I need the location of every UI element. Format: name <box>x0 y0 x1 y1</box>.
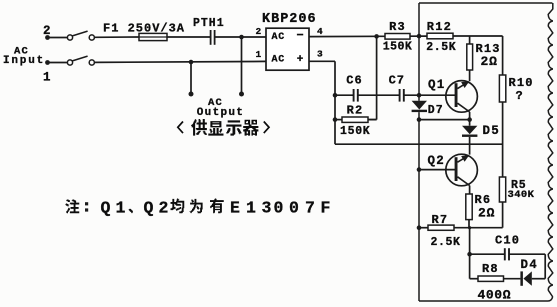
svg-text:3: 3 <box>262 199 272 218</box>
node C10 tap junction <box>467 252 472 257</box>
svg-text:+: + <box>297 54 304 66</box>
svg-text:2: 2 <box>255 26 261 37</box>
svg-text:7: 7 <box>305 199 315 218</box>
transistor Q1 <box>428 78 477 112</box>
wire R5 to bottom rail <box>502 202 504 228</box>
fuse F1 <box>103 21 185 40</box>
wire C7 to Q1 base <box>404 94 455 96</box>
svg-text:2: 2 <box>43 24 51 38</box>
wire C10 to corner <box>509 254 545 279</box>
svg-text:2: 2 <box>159 199 169 218</box>
wire R6 to bottom rail <box>468 220 470 228</box>
svg-text:D7: D7 <box>428 104 444 117</box>
svg-text:4: 4 <box>317 26 323 37</box>
svg-text:Q: Q <box>144 199 154 218</box>
node AC input terminal 1 <box>43 60 51 84</box>
svg-text:E: E <box>230 199 240 218</box>
svg-text:2Ω: 2Ω <box>478 205 495 220</box>
svg-text:Q1: Q1 <box>428 78 445 92</box>
label AC Output <box>197 97 244 119</box>
wire bottom rail <box>454 227 503 229</box>
svg-text:C7: C7 <box>389 74 405 88</box>
node D7 cathode junction <box>417 117 422 122</box>
svg-text:D4: D4 <box>521 258 538 272</box>
svg-text:400Ω: 400Ω <box>478 287 512 302</box>
svg-text:R8: R8 <box>482 262 499 276</box>
svg-text:0: 0 <box>274 199 284 218</box>
svg-text:PTH1: PTH1 <box>193 17 225 30</box>
capacitor PTH1 <box>193 17 225 45</box>
wire <box>453 35 503 37</box>
node D5 anode junction <box>467 117 472 122</box>
wire loop bottom edge <box>419 297 553 301</box>
capacitor C7 <box>389 74 405 102</box>
node rail junction A <box>374 34 379 39</box>
wire bridge pin4 to rail <box>309 35 385 37</box>
svg-text:Input: Input <box>3 55 45 67</box>
svg-text:R12: R12 <box>427 20 452 34</box>
switch S2 (line 1) <box>67 56 94 65</box>
label pin 3 <box>317 48 323 59</box>
label AC Input <box>3 46 45 68</box>
node Q2 base junction <box>417 167 422 172</box>
wire main bus lower <box>418 112 420 301</box>
capacitor C10 <box>470 234 521 261</box>
wire <box>504 278 521 280</box>
wire Q2 collector bus down <box>469 228 471 279</box>
bridge rectifier U1 KBP206 <box>262 12 317 70</box>
diode D5 <box>462 120 500 139</box>
svg-text:0: 0 <box>289 199 299 218</box>
label pin 1 <box>255 49 261 60</box>
svg-text:150K: 150K <box>383 41 413 54</box>
wire <box>95 36 140 38</box>
svg-text:R2: R2 <box>347 104 364 118</box>
wire D5 to Q2 emitter <box>469 137 471 155</box>
wire D7 to D5 <box>419 119 470 121</box>
svg-text:C6: C6 <box>346 74 362 88</box>
resistor R7 <box>419 213 461 249</box>
resistor R13 <box>467 36 501 70</box>
svg-text:1: 1 <box>255 49 261 60</box>
node R7 left junction <box>417 225 422 230</box>
wire AC output right lead <box>241 37 243 93</box>
wire <box>410 35 427 37</box>
wire rail to R10 <box>502 36 504 75</box>
svg-text:KBP206: KBP206 <box>262 12 317 27</box>
resistor R8 <box>470 262 512 302</box>
node C6 tap <box>333 93 338 98</box>
wire loop top edge <box>419 2 552 4</box>
svg-text:150K: 150K <box>340 125 370 138</box>
wire <box>358 94 400 96</box>
wire feedback line <box>368 36 377 119</box>
resistor R2 <box>335 104 377 139</box>
svg-text:3: 3 <box>317 48 323 59</box>
label pin 2 <box>255 26 261 37</box>
svg-text:−: − <box>297 29 304 43</box>
resistor R3 <box>383 20 413 54</box>
svg-text:D5: D5 <box>483 124 500 138</box>
svg-text:1: 1 <box>116 199 126 218</box>
wire AC output left lead <box>190 62 192 93</box>
wire Q1 collector down <box>469 112 471 120</box>
svg-text:2.5K: 2.5K <box>426 41 456 54</box>
node R2 tap <box>333 117 338 122</box>
node junction top line to AC output <box>239 35 244 40</box>
svg-text:R3: R3 <box>389 20 406 34</box>
svg-text:AC: AC <box>272 55 286 66</box>
resistor R10 <box>499 75 533 103</box>
svg-text:1: 1 <box>246 199 256 218</box>
svg-text:2Ω: 2Ω <box>481 54 498 69</box>
wire <box>167 36 210 38</box>
svg-text:F1 250V/3A: F1 250V/3A <box>103 21 185 35</box>
svg-text:R7: R7 <box>432 213 449 227</box>
resistor R6 <box>466 193 495 220</box>
diode D4 <box>520 258 545 286</box>
switch S1 (line 2) <box>67 31 94 40</box>
resistor R12 <box>426 20 456 54</box>
svg-text:2.5K: 2.5K <box>431 236 461 249</box>
wire R10 to R5 <box>502 102 504 177</box>
wire bridge pin3 lead <box>309 61 335 144</box>
svg-text:F: F <box>321 199 331 218</box>
wire bottom return to R5 <box>335 143 503 145</box>
node AC input terminal 2 <box>43 24 51 40</box>
wire <box>50 62 68 64</box>
resistor R5 <box>499 177 534 202</box>
node AC output terminal left <box>189 92 194 97</box>
svg-text:1: 1 <box>43 70 51 84</box>
svg-text:C10: C10 <box>495 234 520 248</box>
wire Q2 base <box>419 169 455 171</box>
svg-text:Q2: Q2 <box>428 154 445 168</box>
svg-text:Output: Output <box>197 107 244 119</box>
svg-text:Q: Q <box>101 199 111 218</box>
wire main bus upper <box>418 3 420 101</box>
node junction bottom line to AC output <box>189 60 194 65</box>
label note: Q1 Q2 are E13007F <box>66 198 331 217</box>
node Q1 base junction <box>417 93 422 98</box>
wire <box>50 37 68 39</box>
transformer winding edge <box>548 3 553 297</box>
svg-text:340K: 340K <box>508 189 535 201</box>
label pin 4 <box>317 26 323 37</box>
label 供显示器 (for display) <box>178 119 269 136</box>
node AC output terminal right <box>239 92 244 97</box>
wire <box>215 36 266 38</box>
wire Q2 collector to R6 <box>469 186 471 195</box>
capacitor C6 <box>335 74 363 102</box>
wire <box>95 61 267 62</box>
wire Q1 emitter to R13 <box>469 70 471 81</box>
transistor Q2 <box>428 154 478 186</box>
svg-text:?: ? <box>516 89 523 103</box>
node R6 bottom junction <box>468 226 471 229</box>
node rail junction B <box>417 34 422 39</box>
diode D7 <box>412 101 444 117</box>
svg-text:AC: AC <box>272 32 286 43</box>
